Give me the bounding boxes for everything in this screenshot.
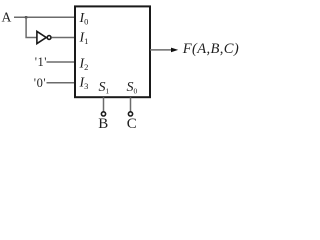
svg-text:C: C xyxy=(127,116,137,132)
svg-text:I1: I1 xyxy=(79,30,89,46)
junction on wire A xyxy=(25,16,27,18)
wire A to pin I0 xyxy=(14,16,75,18)
wire '1' to pin I2 xyxy=(47,61,76,63)
inverter U1 triangle xyxy=(37,31,46,43)
svg-text:'1': '1' xyxy=(35,55,47,69)
wire S0 to terminal C xyxy=(130,97,132,112)
svg-text:I3: I3 xyxy=(79,76,89,92)
svg-text:I0: I0 xyxy=(79,11,89,27)
wire S1 to terminal B xyxy=(103,97,105,112)
wire junction down to inverter input xyxy=(26,17,36,37)
svg-text:A: A xyxy=(2,10,12,25)
svg-text:I2: I2 xyxy=(79,56,89,72)
wire inverter output to pin I1 xyxy=(52,37,75,39)
terminal bubble B xyxy=(101,112,105,116)
svg-text:B: B xyxy=(98,116,108,132)
svg-text:S1: S1 xyxy=(99,80,110,95)
wire '0' to pin I3 xyxy=(47,82,76,84)
terminal bubble C xyxy=(128,112,132,116)
svg-text:'0': '0' xyxy=(34,76,46,90)
svg-text:S0: S0 xyxy=(127,80,138,95)
output arrowhead xyxy=(171,48,178,53)
multiplexer U2 body xyxy=(75,6,150,97)
svg-text:F(A,B,C): F(A,B,C) xyxy=(182,41,239,57)
output wire F xyxy=(150,49,172,51)
inverter U1 bubble xyxy=(47,36,51,40)
